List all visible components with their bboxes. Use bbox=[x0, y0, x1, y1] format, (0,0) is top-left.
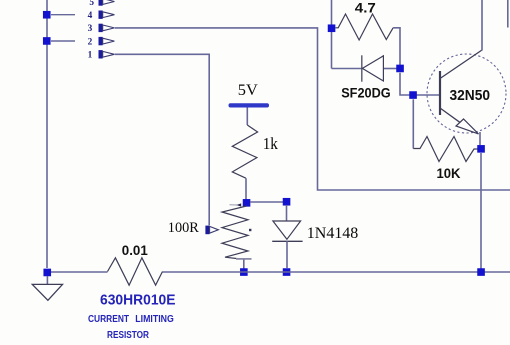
label CURRENT LIMITING bbox=[88, 314, 174, 325]
transistor 32N50 (NPN in dashed circle) bbox=[427, 50, 506, 145]
resistor 1k bbox=[232, 125, 257, 178]
power rail 5V bar bbox=[229, 103, 270, 107]
wire: 4.7 right to corner down bbox=[393, 28, 400, 66]
svg-text:5V: 5V bbox=[238, 82, 258, 99]
junction base bbox=[409, 91, 417, 99]
potentiometer 100R body bbox=[222, 203, 252, 268]
diode SF20DG bbox=[332, 55, 397, 81]
svg-text:1: 1 bbox=[88, 51, 93, 61]
wire: collector up to top edge bbox=[481, 0, 483, 51]
wire: ground rail right segment bbox=[163, 271, 510, 273]
svg-text:32N50: 32N50 bbox=[450, 87, 491, 104]
svg-text:4.7: 4.7 bbox=[355, 0, 376, 15]
wire: pot top to diode top bbox=[250, 201, 284, 203]
svg-text:SF20DG: SF20DG bbox=[341, 85, 391, 101]
wire: dangling stub at right edge bbox=[507, 0, 509, 28]
pin 1 bbox=[88, 50, 115, 61]
ground symbol bbox=[32, 284, 62, 300]
junction ground bbox=[43, 269, 51, 277]
junction rail below diode bbox=[283, 268, 291, 276]
diode 1N4148 bbox=[272, 205, 302, 268]
resistor 10K bbox=[413, 137, 477, 162]
wire: junction down and right to base bbox=[400, 73, 440, 95]
svg-text:10K: 10K bbox=[437, 165, 461, 181]
pin 5 bbox=[89, 0, 114, 8]
wire: base junction down to 10K bbox=[412, 99, 414, 148]
wire: left vertical bus bbox=[46, 0, 48, 268]
junction pin4 tap bbox=[43, 11, 51, 19]
svg-text:4: 4 bbox=[88, 11, 93, 21]
svg-text:1k: 1k bbox=[263, 134, 279, 153]
svg-text:LIMITING: LIMITING bbox=[135, 314, 174, 325]
wire: stub to pin 4 bbox=[51, 14, 75, 16]
svg-text:2: 2 bbox=[88, 37, 93, 47]
junction pin2 tap bbox=[43, 37, 51, 45]
svg-text:1N4148: 1N4148 bbox=[307, 225, 359, 242]
junction 4.7 left bbox=[328, 24, 336, 32]
wire: pin1 net to pot wiper bbox=[115, 54, 209, 225]
pin 4 bbox=[88, 11, 115, 22]
svg-text:RESISTOR: RESISTOR bbox=[107, 330, 150, 341]
resistor 4.7 bbox=[336, 14, 394, 40]
wire: 1k to pot top bbox=[245, 178, 247, 200]
svg-text:630HR010E: 630HR010E bbox=[100, 293, 176, 309]
wire: junction to ground symbol bbox=[46, 276, 48, 285]
pot wiper pin arrow bbox=[205, 226, 218, 235]
junction rail right bbox=[477, 268, 485, 276]
junction SF20DG right bbox=[396, 65, 404, 73]
wire: emitter down to rail bbox=[480, 153, 482, 272]
wire: 4.7/SF20DG left branch vertical from top bbox=[331, 0, 333, 69]
resistor 0.01 bbox=[108, 258, 163, 285]
junction emitter bbox=[477, 145, 485, 153]
junction rail below pot bbox=[240, 268, 248, 276]
wire: ground rail left segment bbox=[47, 271, 108, 273]
junction diode top bbox=[283, 198, 291, 206]
pin 3 bbox=[88, 24, 115, 35]
svg-text:3: 3 bbox=[88, 24, 93, 34]
svg-text:CURRENT: CURRENT bbox=[88, 314, 130, 325]
wire: 5V to 1k bbox=[246, 108, 248, 126]
wire: pin3 net right, down, along y190 to right edge bbox=[115, 28, 510, 190]
svg-text:100R: 100R bbox=[168, 220, 199, 236]
pin 2 bbox=[88, 37, 115, 48]
wire: stub to pin 2 bbox=[51, 40, 75, 42]
svg-text:0.01: 0.01 bbox=[122, 243, 148, 258]
svg-text:5: 5 bbox=[89, 0, 94, 8]
junction pot top bbox=[243, 199, 251, 207]
